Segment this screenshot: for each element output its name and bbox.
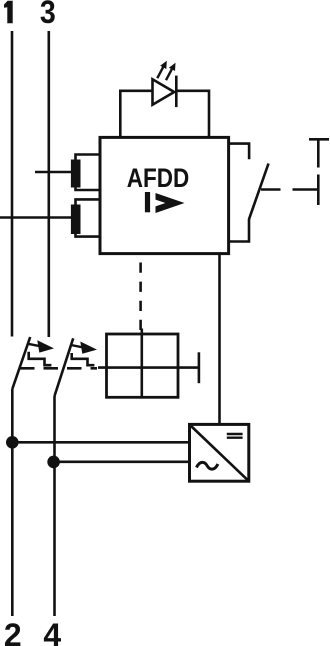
- wire: pole 3 feed to CT1: [35, 171, 72, 174]
- wire: supply tap 1 to converter: [12, 441, 190, 444]
- wire: LED loop right leg: [176, 91, 209, 138]
- wire: line from terminal 3: [47, 31, 50, 337]
- svg-text:2: 2: [4, 617, 22, 646]
- wire: LED loop left leg: [120, 91, 152, 138]
- svg-text:4: 4: [43, 617, 61, 646]
- contact 1 trip arrow: [28, 344, 42, 347]
- junction node on pole 3: [47, 456, 60, 469]
- wire: line from terminal 1: [11, 31, 14, 337]
- test button plunger bar: [317, 175, 320, 206]
- contact 2 latch steps: [72, 353, 95, 365]
- wire: pole 1 feed to CT2: [0, 216, 72, 219]
- trip coil box K1: [107, 334, 179, 397]
- AFDD detection unit box U1: [100, 137, 229, 253]
- contact 1 latch steps: [29, 352, 52, 365]
- wire: CT1 secondary top: [76, 155, 101, 161]
- LED light arrow a: [157, 66, 163, 78]
- LED light arrow b: [166, 68, 172, 80]
- wire: CT2 secondary bottom: [76, 234, 101, 237]
- LED D1 triangle: [153, 79, 175, 104]
- converter diagonal: [191, 426, 248, 481]
- label ~ AC: [197, 462, 218, 469]
- test switch blade S1: [249, 164, 269, 220]
- breaker contact 1 blade: [12, 337, 30, 389]
- terminal label 1: [4, 1, 13, 24]
- contact 2 trip arrow: [71, 345, 85, 348]
- test button T stem: [317, 139, 320, 167]
- power supply converter box U2: [190, 424, 249, 481]
- breaker contact 2 blade: [55, 338, 74, 396]
- mechanical trip linkage (dashed): [20, 367, 97, 370]
- wire: line to terminal 2: [11, 389, 14, 616]
- trip coil cross horizontal / actuator: [98, 366, 199, 369]
- label I> overcurrent symbol: [145, 192, 150, 212]
- current transformer CT2 core bar: [71, 205, 81, 235]
- current transformer CT1 core bar: [71, 160, 81, 188]
- test button T cap: [309, 138, 329, 141]
- actuator end bar: [198, 352, 201, 383]
- LED D1 cathode bar: [175, 76, 178, 108]
- mechanical link to test button (dashed): [261, 188, 281, 191]
- svg-text:AFDD: AFDD: [127, 164, 189, 193]
- svg-text:3: 3: [40, 0, 56, 30]
- wire: supply tap 2 to converter: [54, 460, 190, 463]
- trip coil cross vertical: [141, 329, 144, 397]
- label = DC: [227, 433, 243, 435]
- wire: line to terminal 4: [53, 396, 56, 616]
- junction node on pole 1: [6, 436, 19, 449]
- dashed link AFDD to trip coil: [139, 263, 142, 331]
- wire: test switch upper bracket: [229, 144, 250, 160]
- wire: CT2 secondary top: [76, 199, 101, 205]
- wire: test switch lower bracket: [229, 219, 249, 242]
- wire: CT1 secondary bottom: [76, 187, 101, 190]
- wire: right drop to power supply: [218, 254, 221, 424]
